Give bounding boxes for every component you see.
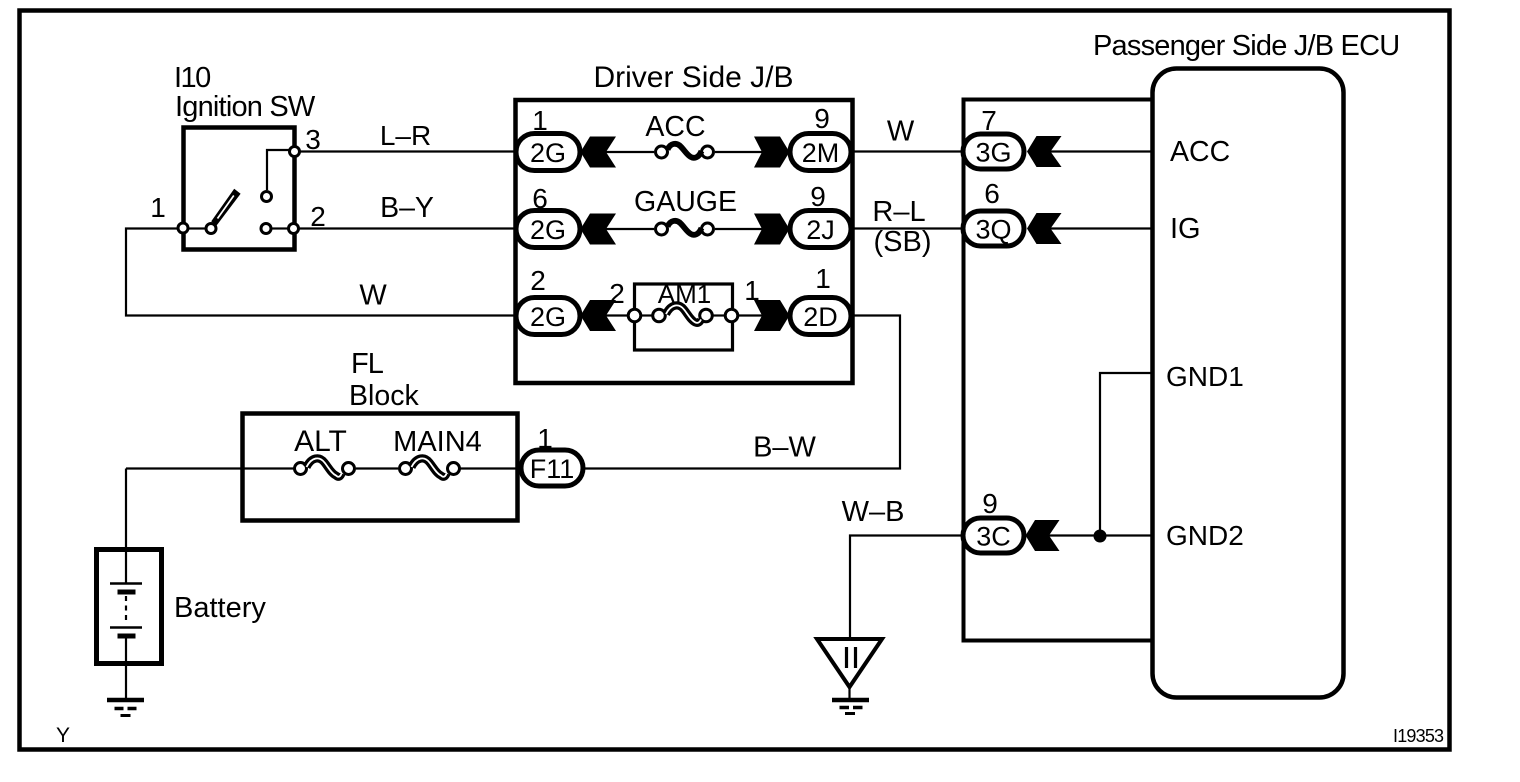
svg-text:9: 9 xyxy=(982,488,998,519)
svg-text:B–W: B–W xyxy=(753,432,816,464)
wire B-W from 2D down to F11 wire xyxy=(584,316,900,469)
svg-text:IG: IG xyxy=(1170,213,1201,245)
svg-text:1: 1 xyxy=(537,423,553,454)
connector F11 oval xyxy=(521,450,583,486)
connector 3G oval xyxy=(963,134,1024,169)
svg-text:1: 1 xyxy=(532,105,548,136)
label ALT xyxy=(294,425,347,458)
chevron arrow row2 left xyxy=(581,214,617,245)
wire MAIN4 to F11 xyxy=(460,467,524,469)
switch internal wire from terminal 3 xyxy=(267,150,294,190)
ignition switch I10 body xyxy=(184,128,295,250)
svg-text:W: W xyxy=(359,280,387,312)
ground under battery xyxy=(107,700,144,716)
svg-text:3C: 3C xyxy=(976,522,1011,552)
label AM1 xyxy=(658,279,711,309)
pin 2 label xyxy=(310,201,326,232)
pin 1 label above 2D xyxy=(815,263,831,294)
pin 2 label left of AM1 box xyxy=(609,278,625,309)
row2 wire inside J/B (GAUGE fuse row) xyxy=(604,228,763,230)
battery box xyxy=(97,550,162,664)
label ACC fuse xyxy=(645,111,705,143)
svg-text:ACC: ACC xyxy=(1170,136,1230,168)
wire 3G to ECU ACC xyxy=(1049,150,1152,152)
svg-text:FL: FL xyxy=(351,348,384,380)
terminal 2 circle xyxy=(289,224,299,234)
label I19353 xyxy=(1393,726,1444,746)
svg-text:7: 7 xyxy=(981,105,997,136)
wire 3Q to ECU IG xyxy=(1049,227,1152,229)
switch internal wire terminal 1 to pivot xyxy=(189,227,205,229)
chevron arrow row1 right xyxy=(754,137,790,168)
pin 1 label above 2G xyxy=(532,105,548,136)
svg-text:Passenger Side J/B ECU: Passenger Side J/B ECU xyxy=(1093,30,1399,62)
pin 9 label above 2M xyxy=(814,103,830,134)
svg-text:Driver Side J/B: Driver Side J/B xyxy=(593,61,793,94)
label B-W xyxy=(753,432,816,464)
switch lever blade xyxy=(211,189,240,226)
FL Block label xyxy=(349,348,419,412)
pin 6 label above 3Q xyxy=(984,178,1000,209)
switch pivot circle xyxy=(206,224,216,234)
label I10 Ignition SW xyxy=(174,62,316,123)
chevron arrow 3G xyxy=(1027,136,1062,167)
svg-text:B–Y: B–Y xyxy=(380,192,434,224)
connector 3Q oval xyxy=(963,211,1024,246)
pin 7 label above 3G xyxy=(981,105,997,136)
fuse GAUGE xyxy=(656,221,714,235)
fusible link AM1 xyxy=(628,305,738,322)
chevron arrow row3 right xyxy=(754,300,790,331)
row3 wires inside J/B (AM1 row) xyxy=(604,314,763,316)
switch internal contact circle lower xyxy=(261,224,271,234)
wire battery junction to ALT xyxy=(126,467,294,469)
passenger connector block xyxy=(964,100,1153,641)
connector 2J oval xyxy=(790,211,851,248)
chevron arrow row3 left xyxy=(581,300,617,331)
wire R-L from 2J to 3Q xyxy=(851,227,964,229)
label MAIN4 xyxy=(393,426,482,458)
svg-text:Ignition SW: Ignition SW xyxy=(175,91,316,123)
label GAUGE fuse xyxy=(634,186,737,218)
wire L-R terminal3 to 2G xyxy=(300,150,518,152)
svg-text:1: 1 xyxy=(815,263,831,294)
pin 6 label above 2G row2 xyxy=(532,183,548,214)
chevron arrow 3Q xyxy=(1027,213,1062,244)
switch internal wire terminal 2 xyxy=(272,227,288,229)
connector 3C oval xyxy=(963,518,1024,553)
wire W terminal1 down and right to 2G xyxy=(126,229,518,316)
wire B-Y terminal2 to 2G xyxy=(299,227,518,229)
svg-text:W: W xyxy=(887,116,915,148)
svg-text:2G: 2G xyxy=(530,302,566,332)
connector 2M oval xyxy=(790,134,851,171)
label W-B xyxy=(842,496,905,528)
junction dot GND xyxy=(1094,530,1107,543)
svg-text:ACC: ACC xyxy=(645,111,705,143)
connector 2G pin1 oval xyxy=(516,134,580,171)
label Battery xyxy=(174,592,266,624)
wire GND2 row xyxy=(1048,534,1152,536)
svg-text:3Q: 3Q xyxy=(975,215,1011,245)
svg-text:2M: 2M xyxy=(802,138,840,168)
Passenger Side J/B ECU title xyxy=(1093,30,1399,62)
connector 2D oval xyxy=(790,298,851,335)
svg-text:2G: 2G xyxy=(530,215,566,245)
wire ALT to MAIN4 xyxy=(356,467,398,469)
connector 2G pin2 oval xyxy=(516,298,580,335)
svg-text:9: 9 xyxy=(814,103,830,134)
svg-text:3G: 3G xyxy=(975,138,1011,168)
svg-text:GAUGE: GAUGE xyxy=(634,186,737,218)
svg-text:1: 1 xyxy=(150,192,166,223)
svg-text:Y: Y xyxy=(56,724,70,747)
svg-text:L–R: L–R xyxy=(380,120,431,151)
AM1 box xyxy=(635,284,733,350)
svg-text:(SB): (SB) xyxy=(874,226,932,258)
svg-text:R–L: R–L xyxy=(872,196,925,228)
svg-text:GND2: GND2 xyxy=(1166,520,1244,551)
label B-Y xyxy=(380,192,434,224)
terminal 1 circle xyxy=(178,223,188,233)
wire battery to FL block xyxy=(125,469,127,552)
label IG (ECU pin) xyxy=(1170,213,1201,245)
connector 2G pin6 oval xyxy=(516,211,580,248)
label GND1 xyxy=(1166,361,1244,392)
svg-text:9: 9 xyxy=(810,181,826,212)
svg-text:ALT: ALT xyxy=(294,425,347,458)
pin 9 label above 2J xyxy=(810,181,826,212)
chevron arrow row1 left xyxy=(581,137,617,168)
svg-text:2J: 2J xyxy=(806,215,835,245)
pin 1 label xyxy=(150,192,166,223)
Driver Side J/B block xyxy=(516,100,853,383)
chevron arrow row2 right xyxy=(754,214,790,245)
svg-text:3: 3 xyxy=(305,124,321,155)
battery cell symbol xyxy=(110,549,142,663)
wire GND1 xyxy=(1100,373,1152,533)
svg-text:I10: I10 xyxy=(174,62,210,94)
pin 1 label above F11 xyxy=(537,423,553,454)
svg-text:GND1: GND1 xyxy=(1166,361,1244,392)
wire W from 2M to 3G xyxy=(851,150,964,152)
svg-text:2: 2 xyxy=(310,201,326,232)
switch internal contact circle upper xyxy=(262,192,272,202)
pin 9 label above 3C xyxy=(982,488,998,519)
svg-text:W–B: W–B xyxy=(842,496,905,528)
label GND2 xyxy=(1166,520,1244,551)
ECU body xyxy=(1153,69,1344,698)
row1 wire inside J/B (ACC fuse row) xyxy=(604,151,763,153)
svg-text:F11: F11 xyxy=(530,454,575,484)
svg-text:6: 6 xyxy=(984,178,1000,209)
pin 1 label right of AM1 box xyxy=(744,275,760,306)
svg-text:6: 6 xyxy=(532,183,548,214)
label W (2M to 3G) xyxy=(887,116,915,148)
fusible link ALT xyxy=(295,458,355,476)
pin 3 label xyxy=(305,124,321,155)
svg-text:2D: 2D xyxy=(803,302,838,332)
svg-text:2: 2 xyxy=(530,265,546,296)
wire W-B from ground II to 3C xyxy=(850,536,964,640)
FL Block box xyxy=(243,414,518,521)
fusible link MAIN4 xyxy=(400,458,460,476)
svg-text:I19353: I19353 xyxy=(1393,726,1444,746)
svg-text:MAIN4: MAIN4 xyxy=(393,426,482,458)
svg-text:Block: Block xyxy=(349,380,419,412)
wire battery to ground xyxy=(125,663,127,698)
label Y xyxy=(56,724,70,747)
svg-text:2G: 2G xyxy=(530,138,566,168)
terminal 3 circle xyxy=(290,147,300,157)
label L-R xyxy=(380,120,431,151)
label ACC (ECU pin) xyxy=(1170,136,1230,168)
Driver Side J/B title xyxy=(593,61,793,94)
label W (ignition to 2G) xyxy=(359,280,387,312)
ground II triangle xyxy=(817,639,882,714)
chevron arrow 3C xyxy=(1026,520,1060,551)
svg-text:Battery: Battery xyxy=(174,592,266,624)
pin 2 label above 2G row3 xyxy=(530,265,546,296)
fuse ACC xyxy=(656,144,714,158)
label R-L (SB) xyxy=(872,196,931,258)
